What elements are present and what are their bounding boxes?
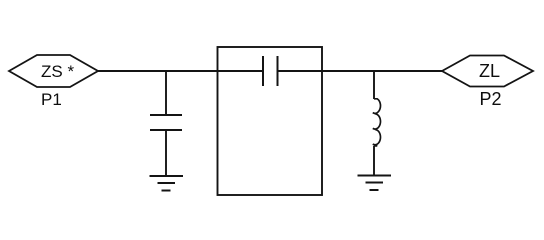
ground (below inductor) <box>358 176 392 191</box>
wire: P1 to series capacitor left plate <box>97 70 263 72</box>
wire: inductor to ground <box>373 146 375 176</box>
subcircuit box <box>218 47 323 195</box>
capacitor (series, in box) plates <box>263 56 278 86</box>
port P1 <box>9 55 98 87</box>
inductor (shunt, right) coil <box>373 99 381 146</box>
svg-text:P2: P2 <box>480 89 502 109</box>
wire: shunt capacitor tap (junction to top plate) <box>165 71 167 115</box>
wire: shunt capacitor to ground <box>165 130 167 176</box>
svg-text:P1: P1 <box>41 90 62 109</box>
svg-text:ZS *: ZS * <box>41 62 74 81</box>
wire: series capacitor right plate to P2 <box>278 70 444 72</box>
wire: shunt inductor tap <box>373 71 375 99</box>
port P2 <box>442 56 533 87</box>
capacitor (shunt, left) plates <box>150 115 182 130</box>
svg-text:ZL: ZL <box>479 61 500 81</box>
ground (below shunt capacitor) <box>150 176 184 191</box>
